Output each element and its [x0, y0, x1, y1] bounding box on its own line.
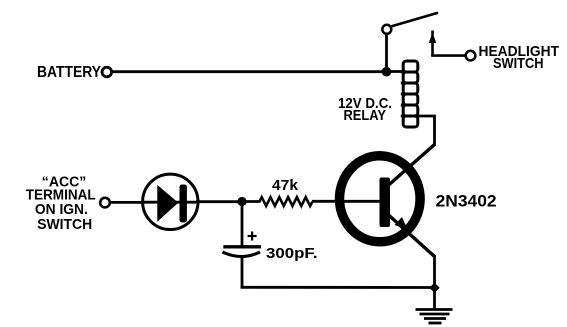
resistor R1 47k — [260, 197, 313, 206]
svg-text:2N3402: 2N3402 — [436, 191, 497, 210]
label ACC TERMINAL ON IGN. SWITCH — [26, 175, 96, 233]
acc terminal circle — [100, 198, 110, 208]
svg-text:ON IGN.: ON IGN. — [35, 202, 88, 218]
wire resistor to base — [312, 200, 380, 203]
node A junction dot — [382, 67, 392, 77]
svg-text:RELAY: RELAY — [344, 108, 387, 124]
svg-text:300pF.: 300pF. — [266, 245, 318, 262]
wire relay coil to collector — [418, 116, 435, 146]
svg-text:TERMINAL: TERMINAL — [26, 187, 96, 203]
wire node B to resistor — [242, 200, 261, 203]
svg-text:47k: 47k — [272, 177, 299, 194]
wire junction to ground — [433, 288, 436, 310]
battery terminal circle — [102, 67, 112, 77]
transistor Q1 2N3402 — [340, 145, 435, 257]
svg-text:SWITCH: SWITCH — [37, 217, 92, 233]
ground symbol — [416, 310, 453, 324]
relay switch blade — [391, 13, 437, 27]
movable contact arrow — [429, 31, 466, 57]
wire node A up to switch pivot — [385, 33, 388, 72]
wire battery to node A — [112, 70, 386, 73]
label 12V D.C. RELAY — [338, 95, 392, 124]
wire emitter to ground junction — [433, 255, 436, 289]
wire acc terminal to diode — [110, 201, 145, 204]
wire capacitor to ground junction — [241, 286, 435, 289]
headlight switch terminal circle — [466, 51, 476, 61]
wire node A to relay coil — [387, 70, 405, 73]
diode D1 — [143, 174, 198, 229]
ground junction dot — [429, 283, 439, 293]
relay switch pivot circle — [382, 25, 391, 34]
svg-text:SWITCH: SWITCH — [493, 55, 544, 72]
svg-text:BATTERY: BATTERY — [37, 64, 101, 81]
capacitor C1 — [223, 202, 262, 289]
wire diode to node B — [196, 200, 243, 203]
label HEADLIGHT SWITCH — [479, 43, 560, 72]
relay coil K1 — [401, 61, 418, 127]
node B junction dot — [237, 197, 246, 206]
